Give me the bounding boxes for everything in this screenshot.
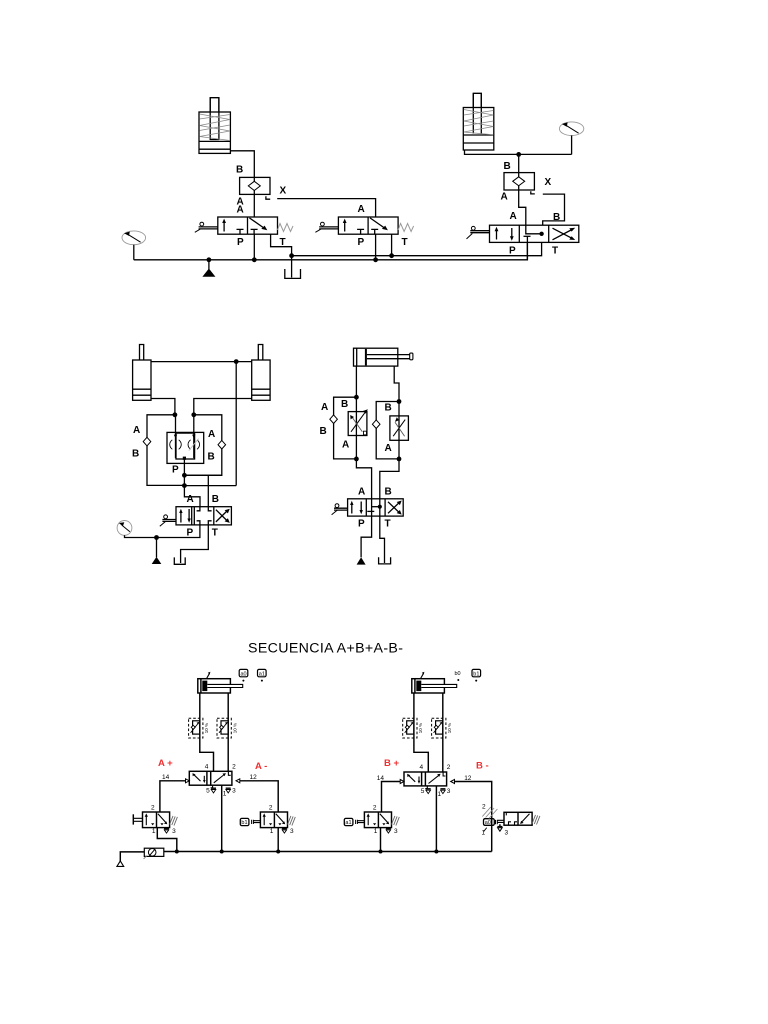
node cyl2 port junction <box>516 152 521 157</box>
svg-text:A +: A + <box>158 758 173 769</box>
wire to tank 1 <box>291 256 293 278</box>
wire fcB2 line through <box>442 718 444 738</box>
svg-text:b1: b1 <box>241 820 247 826</box>
svg-text:B: B <box>208 451 215 462</box>
svg-text:T: T <box>402 237 408 248</box>
wire gauge3 to node <box>125 535 157 537</box>
svg-text:X: X <box>280 186 287 197</box>
wire fcB2 to port2 <box>442 738 444 772</box>
wire A- port1 to bus <box>277 828 279 852</box>
wire check branch left <box>334 397 357 459</box>
cylinder 1 (spring return, vertical) <box>199 98 230 154</box>
wire valve1 T to tank line <box>271 234 292 256</box>
svg-text:B: B <box>504 161 511 172</box>
valve 3/2 B+ (roller a1) <box>364 804 399 834</box>
tank 1 <box>285 269 301 278</box>
svg-text:P: P <box>358 519 365 530</box>
wire X2 pilot to valve3 B <box>543 194 565 225</box>
sensor a1 <box>258 669 267 681</box>
svg-text:X: X <box>545 177 552 188</box>
node rod branch <box>397 399 402 404</box>
check valve 2 (pilot operated) <box>504 173 534 190</box>
wire node to B port <box>184 474 221 476</box>
wire cylinder2 port line <box>465 150 572 154</box>
svg-text:B: B <box>553 212 560 223</box>
pilot stub X1 <box>266 196 270 199</box>
check valve 1 (pilot operated) <box>240 177 270 194</box>
cylinder 5 (horizontal) <box>354 348 413 366</box>
node fc2 bottom <box>397 457 402 462</box>
valve 5/2 B <box>377 764 472 798</box>
wire port1 to bus <box>221 785 223 851</box>
wire fc2 to valve5 B <box>380 459 399 499</box>
svg-text:T: T <box>552 246 558 257</box>
node valve1-bus <box>252 257 257 262</box>
node cap branch <box>354 395 359 400</box>
node valve2-bus <box>373 257 378 262</box>
wire T return line <box>292 242 542 255</box>
flow control 1 <box>348 397 368 459</box>
svg-text:B: B <box>320 426 327 437</box>
flow control B1 <box>403 718 423 738</box>
wire cyl5 cap port down <box>355 366 357 397</box>
wire check2 A to valve3 <box>519 190 526 225</box>
wire pilot14 <box>160 781 186 812</box>
flow control 2 <box>390 402 409 459</box>
svg-text:2: 2 <box>482 804 486 811</box>
valve 3/2 start A+ <box>143 804 178 834</box>
valve 5/2 A <box>162 764 257 798</box>
wire valve4 T to tank <box>181 525 209 563</box>
svg-text:A: A <box>358 204 365 215</box>
node B+ bus <box>379 850 383 854</box>
valve 4 (4/3, 3 sections) <box>160 507 232 527</box>
svg-text:a1: a1 <box>259 671 265 677</box>
svg-text:a1: a1 <box>345 820 351 826</box>
svg-text:A -: A - <box>255 761 267 772</box>
roller actuator b1 <box>240 818 260 826</box>
svg-text:B: B <box>341 399 348 410</box>
wire cylB right port <box>442 693 444 718</box>
svg-text:A: A <box>501 192 508 203</box>
wire B port down <box>207 475 209 506</box>
wire cylinder1 port to check valve B <box>230 151 254 178</box>
wire check1 to valve1 <box>253 194 255 217</box>
wire right check branch <box>184 415 221 476</box>
svg-text:b0: b0 <box>455 671 461 677</box>
wire cyl5 rod port down <box>394 366 399 401</box>
svg-text:3: 3 <box>505 830 509 837</box>
wire P bus <box>134 242 528 259</box>
svg-text:1: 1 <box>482 830 486 837</box>
wire junction to check2 <box>518 154 520 172</box>
wire cylA right port <box>227 693 229 718</box>
svg-text:A: A <box>133 425 140 436</box>
svg-text:P: P <box>172 464 179 475</box>
node port1B-bus <box>434 850 438 854</box>
wire valve4 P to pump <box>157 525 200 538</box>
flow control A2 <box>217 718 237 738</box>
node top link <box>234 359 239 364</box>
valve 2 (3/2 lever) <box>315 217 413 234</box>
wire cylA left port <box>199 693 201 718</box>
svg-text:P: P <box>237 237 244 248</box>
cylinder A (double acting) <box>198 672 243 693</box>
wire valve1 A to P-bus <box>253 234 255 260</box>
sensor a0 <box>239 669 248 681</box>
node A+ bus <box>175 850 179 854</box>
node pump2 <box>154 535 159 540</box>
pump 1 <box>202 260 215 277</box>
svg-text:B: B <box>385 487 392 498</box>
svg-text:b1: b1 <box>473 671 479 677</box>
node A-side <box>173 412 178 417</box>
pump 2 <box>152 538 162 565</box>
svg-text:A: A <box>208 429 215 440</box>
svg-text:SECUENCIA A+B+A-B-: SECUENCIA A+B+A-B- <box>248 641 403 657</box>
svg-text:B: B <box>132 448 139 459</box>
wire P down <box>184 458 200 507</box>
node fc1 bottom <box>354 457 359 462</box>
valve 5 (4/2 lever, 3 sections) <box>332 499 404 516</box>
wire fcB1 line through <box>413 718 415 738</box>
node pump1 <box>207 257 212 262</box>
wire valve5 P to pump <box>361 516 372 557</box>
cylinder 4 (right) <box>252 345 270 401</box>
wire valve5 A/P through <box>371 499 373 516</box>
check valve 4 <box>218 440 226 449</box>
wire fcA2 to port2 <box>227 738 229 771</box>
air source <box>117 852 144 867</box>
wire main air bus <box>164 851 492 853</box>
wire cyl4 bottom port <box>194 399 252 415</box>
node P2 <box>182 483 187 488</box>
wire rod-side link <box>151 361 252 363</box>
svg-text:B +: B + <box>384 758 400 769</box>
svg-text:A: A <box>187 494 194 505</box>
wire valveA+ port1 to bus <box>157 828 177 852</box>
tank 3 <box>379 557 391 564</box>
sensor b0 <box>455 671 461 681</box>
flow control block <box>167 415 204 464</box>
wire X pilot line to valve2 A <box>277 199 375 217</box>
wire pilot12B <box>455 782 492 819</box>
svg-text:T: T <box>385 519 391 530</box>
svg-text:A: A <box>237 204 244 215</box>
wire valve3 P stub <box>526 236 528 259</box>
svg-text:B -: B - <box>476 761 489 772</box>
svg-text:P: P <box>509 246 516 257</box>
svg-text:B: B <box>212 494 219 505</box>
svg-text:a0: a0 <box>485 820 491 826</box>
wire gauge1 to bus <box>133 245 135 260</box>
svg-text:B: B <box>385 402 392 413</box>
node B-side <box>191 412 196 417</box>
node valve2 T junction <box>389 253 394 258</box>
wire valve2 A to P-bus <box>375 234 377 260</box>
tank 2 <box>174 557 185 564</box>
wire pilot14B <box>382 782 401 813</box>
wire valve5 B/T through <box>379 499 381 516</box>
flow control B2 <box>432 718 452 738</box>
cylinder 3 (left) <box>133 345 151 401</box>
wire check branch inner <box>376 402 399 459</box>
wire cyl3 bottom port <box>151 399 175 415</box>
wire pilot12 <box>240 781 278 812</box>
wire B+ port1 to bus <box>380 828 382 852</box>
roller actuator a1 <box>344 818 364 826</box>
wire gauge2 down <box>571 136 573 155</box>
wire node2 to long vertical <box>184 485 236 487</box>
pushbutton actuator <box>133 814 142 824</box>
wire fcA1 line through <box>199 718 201 738</box>
pilot stub X2 <box>531 191 535 194</box>
gauge 1 <box>122 231 146 245</box>
node port1-bus <box>220 850 224 854</box>
svg-text:B: B <box>236 165 243 176</box>
wire cylB left port <box>413 693 415 718</box>
cylinder B (double acting) <box>412 672 457 693</box>
svg-text:A: A <box>342 440 349 451</box>
air service unit <box>144 848 164 859</box>
node P1 <box>182 473 187 478</box>
node A- bus <box>276 850 280 854</box>
wire fcB1 to port4 <box>414 738 428 772</box>
svg-text:A: A <box>321 402 328 413</box>
valve 3/2 A- (roller b1) <box>260 804 295 834</box>
valve 3/2 B- (roller a0, rotated) <box>482 804 540 852</box>
svg-text:a0: a0 <box>241 671 247 677</box>
gauge 3 <box>117 521 132 536</box>
valve 3 (4/2 lever, 3 sections) <box>467 225 579 242</box>
wire valve2 T to tank line <box>391 234 393 256</box>
svg-text:A: A <box>385 443 392 454</box>
pump 3 <box>357 557 366 564</box>
node tank junction <box>289 253 294 258</box>
svg-text:A: A <box>510 211 517 222</box>
wire left check branch <box>147 415 184 486</box>
sensor b1 <box>472 669 481 681</box>
check valve 6 <box>372 420 380 429</box>
wire fcA1 to port4 <box>200 738 214 771</box>
check valve 5 <box>330 415 338 424</box>
svg-text:T: T <box>212 527 218 538</box>
cylinder 2 (spring return, vertical) <box>463 93 494 150</box>
wire port1B to bus <box>435 786 437 852</box>
svg-text:P: P <box>358 237 365 248</box>
check valve 3 <box>143 437 151 446</box>
wire fcA2 line through <box>227 718 229 738</box>
wire fc1 to valve5 A <box>356 459 371 499</box>
svg-text:P: P <box>187 527 194 538</box>
flow control A1 <box>189 718 209 738</box>
wire valve5 T to tank <box>380 516 385 563</box>
svg-text:A: A <box>358 487 365 498</box>
gauge 2 <box>559 122 583 136</box>
wire long down from link <box>235 362 237 486</box>
valve 1 (3/2 lever) <box>195 217 293 234</box>
